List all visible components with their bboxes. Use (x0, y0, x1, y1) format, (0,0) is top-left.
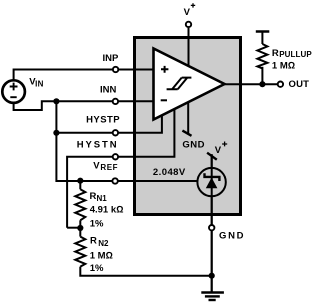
svg-text:INP: INP (103, 53, 120, 64)
svg-text:R: R (272, 48, 279, 59)
svg-text:1%: 1% (90, 219, 104, 230)
svg-text:REF: REF (100, 163, 118, 172)
svg-text:INN: INN (100, 84, 117, 95)
svg-text:HYSTN: HYSTN (77, 140, 119, 151)
svg-text:GND: GND (219, 230, 245, 241)
svg-text:N2: N2 (98, 239, 109, 248)
svg-text:PULLUP: PULLUP (279, 50, 312, 59)
svg-text:4.91 kΩ: 4.91 kΩ (90, 205, 124, 216)
svg-text:2.048V: 2.048V (153, 167, 186, 178)
svg-text:R: R (90, 191, 97, 202)
svg-text:1 MΩ: 1 MΩ (272, 61, 295, 72)
svg-text:1 MΩ: 1 MΩ (90, 251, 113, 262)
svg-text:HYSTP: HYSTP (86, 115, 120, 126)
svg-text:V: V (93, 160, 100, 171)
svg-text:OUT: OUT (289, 79, 310, 90)
svg-text:V: V (184, 7, 191, 18)
svg-text:R: R (90, 235, 97, 246)
svg-text:V: V (215, 145, 222, 156)
svg-text:1%: 1% (90, 263, 104, 274)
svg-text:N1: N1 (97, 194, 108, 203)
svg-text:IN: IN (35, 80, 44, 89)
svg-text:GND: GND (182, 140, 205, 151)
